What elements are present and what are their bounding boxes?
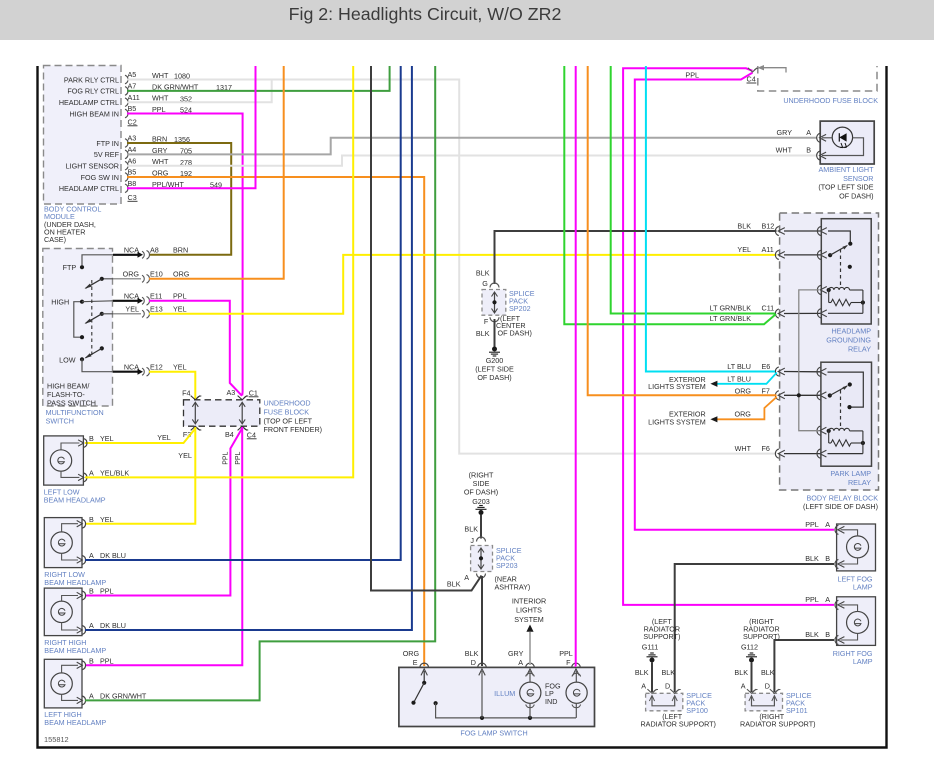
wire BLK (vertical to SP203 A) [371,66,482,591]
svg-text:RADIATOR SUPPORT): RADIATOR SUPPORT) [740,720,815,729]
block pin at 395.3 [775,391,778,400]
relay2 wire F7 [784,394,820,396]
switch pin F [572,663,581,667]
svg-text:BLK: BLK [805,554,819,563]
svg-text:LIGHT SENSOR: LIGHT SENSOR [66,162,119,171]
wire YEL (E13 to relay A11) [149,255,777,314]
switch internal wire E13 [102,313,113,315]
svg-text:G111: G111 [642,643,659,652]
wire BLK (F to G200) [494,319,496,347]
switch pin E10 [142,275,144,282]
wire DK BLU (right high A up) [85,66,412,630]
wire PPL (to switch F) [575,66,577,666]
svg-text:E12: E12 [150,363,163,372]
svg-text:ORG: ORG [735,410,752,419]
svg-text:E11: E11 [150,292,162,301]
svg-text:BEAM HEADLAMP: BEAM HEADLAMP [44,495,106,504]
right low beam headlamp box [44,518,82,568]
svg-text:A: A [806,128,811,137]
svg-text:A5: A5 [128,70,137,79]
C4 internal stub [759,68,786,73]
svg-text:A7: A7 [128,82,137,91]
svg-text:D: D [471,658,476,667]
fog switch contact 2 [434,701,438,705]
wire ORG stub (exterior lights) [713,397,777,420]
svg-text:DK BLU: DK BLU [100,551,126,560]
switch internal wire E10 [102,278,113,280]
svg-text:SWITCH: SWITCH [46,416,74,425]
svg-text:SYSTEM: SYSTEM [514,615,544,624]
left high beam headlamp bulb [51,673,72,694]
svg-text:E13: E13 [150,305,163,314]
ground G112 [750,652,754,654]
wire YEL (F3 to right low B) [85,427,195,524]
ambient light sensor circle [832,127,852,147]
svg-text:BLK: BLK [734,668,748,677]
svg-text:NCA: NCA [124,292,139,301]
relay1 wire A11 [784,254,820,256]
splice pack SP202 box [482,290,506,316]
wire DK GRN/WHT 1317 (A7) [127,66,390,91]
ground G203 [479,505,483,507]
svg-text:PPL: PPL [100,587,114,596]
svg-text:ILLUM: ILLUM [494,689,515,698]
svg-text:SP100: SP100 [686,706,708,715]
svg-text:LIGHTS SYSTEM: LIGHTS SYSTEM [648,382,706,391]
svg-text:PARK RLY CTRL: PARK RLY CTRL [64,75,119,84]
svg-text:B5: B5 [128,168,137,177]
block pin at 371.5 [775,367,778,376]
fog switch bus [436,703,576,718]
svg-text:OF DASH): OF DASH) [839,191,873,200]
fog switch contact [423,671,425,681]
relay1 pin 1 [817,226,820,235]
wire YEL/BLK (left low A up) [85,66,353,477]
wire BRN 1356 (A3 to A8) [127,143,231,255]
wire BLK (G112 to A) [751,663,753,693]
relay1 pin 3 [817,285,820,294]
left high beam headlamp box [44,659,82,708]
svg-text:BLK: BLK [635,668,649,677]
svg-text:FOG RLY CTRL: FOG RLY CTRL [67,87,119,96]
svg-text:A: A [89,551,94,560]
body relay block box [780,213,879,490]
svg-text:SP202: SP202 [509,304,531,313]
splice pack SP203 box [471,546,493,572]
wire WHT 352 (A11, joins WHT 1080) [127,80,272,103]
svg-text:CASE): CASE) [44,235,66,244]
exterior lights arrow 2 [710,416,717,422]
switch pin D [478,663,487,667]
switch stub E10 [113,278,141,280]
svg-text:A8: A8 [150,246,159,255]
svg-text:G: G [482,279,488,288]
relay2 actuator [840,390,842,428]
exterior lights arrow 1 [710,381,717,387]
switch pin A8 [142,251,144,258]
svg-text:WHT: WHT [735,444,752,453]
svg-text:F: F [566,658,571,667]
right low beam headlamp pin A [82,556,85,565]
svg-text:B: B [806,146,811,155]
left low beam headlamp internal wires [61,443,79,450]
svg-text:ORG: ORG [735,386,752,395]
svg-text:YEL: YEL [157,433,171,442]
pin C4 (top) [748,68,757,72]
svg-text:B12: B12 [762,221,775,230]
svg-text:B8: B8 [128,179,137,188]
svg-text:PPL: PPL [223,451,230,464]
svg-text:OF DASH): OF DASH) [498,329,532,338]
svg-text:G203: G203 [472,497,490,506]
body control module box [44,66,122,205]
svg-text:F6: F6 [762,444,770,453]
svg-text:C11: C11 [762,304,775,313]
LOW contact [80,357,84,361]
switch pin E13 [142,310,144,317]
svg-text:B4: B4 [225,430,234,439]
svg-text:A3: A3 [128,134,137,143]
svg-text:YEL: YEL [178,451,192,460]
svg-text:(TOP OF LEFT: (TOP OF LEFT [264,416,313,425]
svg-text:HIGH BEAM IN: HIGH BEAM IN [69,109,119,118]
svg-text:B: B [89,515,94,524]
svg-text:A4: A4 [128,145,137,154]
svg-text:RADIATOR SUPPORT): RADIATOR SUPPORT) [640,720,715,729]
svg-text:G112: G112 [741,643,758,652]
svg-text:F: F [484,317,489,326]
switch arm E12 [100,346,104,350]
SP202 bus [494,293,496,313]
svg-text:PPL: PPL [805,595,819,604]
relay2 wire E6 [784,371,820,373]
svg-text:BLK: BLK [761,668,775,677]
switch arm E10 [100,277,104,281]
left fog lamp box [837,524,876,571]
BCM pin B8 [125,184,128,193]
svg-text:(TOP LEFT SIDE: (TOP LEFT SIDE [818,183,873,192]
svg-text:D: D [765,682,770,691]
svg-text:E: E [413,658,418,667]
svg-text:SUPPORT): SUPPORT) [643,632,680,641]
svg-text:YEL/BLK: YEL/BLK [100,469,129,478]
relay1 wire C11 [784,312,820,314]
svg-text:YEL: YEL [100,515,114,524]
svg-text:A: A [825,520,830,529]
relay2 switch arm [828,393,832,397]
pin F4 [191,396,200,400]
svg-text:PPL: PPL [100,657,114,666]
fuse A3-B4 [241,403,243,424]
svg-text:BLK: BLK [447,580,461,589]
relay1 coil [827,288,831,292]
sensor pin A [817,133,820,142]
svg-text:F4: F4 [182,388,190,397]
multifunction switch box [43,249,113,407]
switch internal wire E11 [82,300,113,303]
BCM pin A4 [125,150,128,159]
svg-text:UNDERHOOD FUSE BLOCK: UNDERHOOD FUSE BLOCK [783,96,878,105]
svg-text:FRONT FENDER): FRONT FENDER) [264,425,323,434]
BCM pin A3 [125,139,128,148]
wire ORG 192 (B5 to fog switch E) [127,177,424,666]
right fog lamp internal wires [841,605,858,612]
svg-text:WHT: WHT [776,146,793,155]
SP203 bottom pin [477,574,486,579]
svg-text:DK GRN/WHT: DK GRN/WHT [100,692,147,701]
left low beam headlamp box [44,436,84,485]
interior lights arrow [526,625,533,632]
SP202 bottom pin [490,317,499,322]
wire LT GRN/BLK 2 (to C11) [564,66,776,324]
svg-text:B5: B5 [128,104,137,113]
SP203 top pin [477,537,486,542]
svg-text:LAMP: LAMP [853,657,873,666]
left high beam headlamp internal wires [62,665,78,673]
svg-text:NCA: NCA [124,246,139,255]
svg-text:B: B [825,630,830,639]
fog switch arm [415,683,425,701]
svg-text:C3: C3 [128,193,137,202]
svg-text:PASS SWITCH: PASS SWITCH [47,398,96,407]
left low beam headlamp bulb [50,450,71,471]
pin F3 [191,426,200,430]
svg-text:D: D [665,682,670,691]
relay2 switch wiring [828,372,864,407]
right fog lamp pin B [835,635,838,644]
svg-text:FOG LAMP SWITCH: FOG LAMP SWITCH [460,729,527,738]
left low beam headlamp pin A [84,473,87,482]
switch pin E11 [142,297,144,304]
svg-text:GROUNDING: GROUNDING [826,336,871,345]
svg-text:ORG: ORG [173,270,190,279]
svg-text:A: A [89,469,94,478]
wire PPL (C4 to left high B) [85,427,242,665]
right high beam headlamp internal wires [62,596,78,602]
BCM pin A7 [125,87,128,96]
svg-text:HEADLAMP CTRL: HEADLAMP CTRL [59,98,119,107]
right low beam headlamp internal wires [62,524,78,532]
block pin at 453.6 [775,449,778,458]
svg-text:OF DASH): OF DASH) [477,373,511,382]
svg-text:C1: C1 [249,388,258,397]
SP202 top pin [490,283,499,288]
svg-text:A11: A11 [762,245,774,254]
svg-text:LT BLU: LT BLU [727,362,751,371]
svg-text:A: A [89,621,94,630]
switch internal wire A8-FTP [82,255,113,265]
relay1 pin 2 [817,250,820,259]
splice pack SP101 box [745,693,782,711]
switch stub A8 [113,254,141,256]
svg-text:FTP IN: FTP IN [96,139,119,148]
svg-text:LT GRN/BLK: LT GRN/BLK [710,314,751,323]
svg-text:SUPPORT): SUPPORT) [743,632,780,641]
switch pin A [526,663,535,667]
svg-text:DK BLU: DK BLU [100,621,126,630]
svg-text:B: B [89,434,94,443]
wire ORG (E10 up) [149,66,284,279]
right high beam headlamp pin B [82,591,85,600]
svg-text:PPL: PPL [685,71,699,80]
HIGH bracket [74,302,82,338]
relay2 pin 2 [817,391,820,400]
svg-text:OF DASH): OF DASH) [464,488,498,497]
svg-text:BEAM HEADLAMP: BEAM HEADLAMP [44,646,106,655]
wire LT BLU stub (exterior lights) [717,373,777,384]
wire PPL/WHT 549 (B8 up) [127,66,256,188]
svg-text:C4: C4 [247,430,256,439]
wire PPL (E11 to fuse block C1) [149,301,242,396]
svg-text:LT BLU: LT BLU [727,374,751,383]
svg-text:BLK: BLK [476,329,490,338]
switch pin E12 [142,368,144,375]
svg-text:5V REF: 5V REF [94,150,120,159]
right high beam headlamp pin A [82,626,85,635]
svg-text:NCA: NCA [124,363,139,372]
svg-text:AMBIENT LIGHT: AMBIENT LIGHT [819,165,875,174]
svg-text:BLK: BLK [737,221,751,230]
splice pack SP101 pin D [770,689,779,693]
ambient light sensor box [820,121,874,164]
svg-text:RELAY: RELAY [848,345,871,354]
sensor pin B [817,151,820,160]
wire YEL (E12 to F4) [149,372,195,399]
svg-text:FUSE BLOCK: FUSE BLOCK [264,407,310,416]
svg-text:B: B [825,554,830,563]
wire WHT 1080 (A5 to F6) [127,80,775,454]
svg-text:YEL: YEL [125,305,139,314]
svg-text:GRY: GRY [508,649,524,658]
svg-text:E10: E10 [150,270,163,279]
pin A3/C1 [238,396,247,400]
wire WHT 278 (A6 to sensor B) [127,156,817,166]
svg-text:A: A [89,692,94,701]
relay1 NO contact [848,265,852,269]
wire DK GRN/WHT (left high A up) [85,66,435,700]
left low beam headlamp pin B [84,439,87,448]
relay2 pin 4 [817,449,820,458]
svg-text:A11: A11 [128,93,140,102]
svg-text:YEL: YEL [737,245,751,254]
svg-text:IND: IND [545,697,557,706]
ILLUM lamp [526,673,535,676]
underhood fuse block box [184,400,260,426]
svg-text:PARK LAMP: PARK LAMP [830,469,871,478]
svg-text:LAMP: LAMP [853,583,873,592]
wire GRY (interior lights) [529,632,531,665]
relay1 wire B12 [784,230,820,232]
underhood fuse block (top) box [758,66,877,91]
wire PPL (C4 to right fog A) [623,68,834,605]
wire BLK (left fog B to SP100) [675,564,834,692]
fog lamp switch box [399,667,595,726]
switch D internal [481,671,483,718]
svg-text:GRY: GRY [777,128,793,137]
switch actuator link [91,280,93,358]
svg-text:BEAM HEADLAMP: BEAM HEADLAMP [44,578,106,587]
svg-text:PPL: PPL [235,451,242,464]
wire PPL (C4 to left fog A) [635,73,834,530]
svg-text:LIGHTS: LIGHTS [516,606,542,615]
title band [0,0,934,40]
svg-text:HEADLAMP CTRL: HEADLAMP CTRL [59,184,119,193]
relay1 switch wiring [828,231,850,244]
svg-text:J: J [470,536,474,545]
wire BLK (B12 to SP202) [495,231,777,284]
headlamp grounding relay box [821,219,871,324]
svg-text:INTERIOR: INTERIOR [512,597,546,606]
BCM pin A5 [125,75,128,84]
svg-text:Fig 2: Headlights Circuit, W/O: Fig 2: Headlights Circuit, W/O ZR2 [289,4,562,24]
svg-text:ASHTRAY): ASHTRAY) [495,583,531,592]
svg-text:PPL: PPL [173,292,187,301]
photodiode [839,133,846,141]
left fog lamp bulb [847,536,869,558]
svg-text:RELAY: RELAY [848,478,871,487]
wire DK BLU (right low A up) [85,66,401,560]
svg-text:A: A [641,682,646,691]
switch internal wire LOW-E12 [82,359,113,371]
wire LT GRN/BLK 1 (to C11) [611,66,775,314]
right fog lamp box [837,597,876,646]
ground G111 [650,652,654,654]
splice pack SP101 pin A [747,689,756,693]
splice pack SP100 bus [652,696,675,706]
svg-text:ORG: ORG [123,270,140,279]
FOG LP IND lamp [572,673,581,676]
wire BLK (G203 to SP203) [480,515,482,539]
relay coil feed loop [799,290,819,431]
svg-text:A: A [825,595,830,604]
svg-text:ORG: ORG [403,649,420,658]
right low beam headlamp pin B [82,519,85,528]
svg-text:SP101: SP101 [786,706,808,715]
svg-text:(LEFT SIDE OF DASH): (LEFT SIDE OF DASH) [803,502,878,511]
wire BLK (right fog B to SP101) [774,640,834,692]
wire LT BLU (to E6) [646,66,775,372]
switch pin E [420,663,429,667]
svg-text:A6: A6 [128,156,137,165]
svg-text:LIGHTS SYSTEM: LIGHTS SYSTEM [648,418,706,427]
switch arm E13 [100,312,104,316]
left high beam headlamp pin A [82,696,85,705]
svg-text:C2: C2 [128,118,137,127]
svg-text:BLK: BLK [465,649,479,658]
splice pack SP101 bus [752,696,775,706]
svg-text:BLK: BLK [662,668,676,677]
svg-text:A: A [741,682,746,691]
left fog lamp pin A [835,525,838,534]
svg-text:HIGH: HIGH [51,298,69,307]
svg-text:FTP: FTP [63,263,77,272]
wire PPL (C4 to right high B) [85,429,242,596]
svg-text:B: B [89,657,94,666]
svg-text:YEL: YEL [100,434,114,443]
splice pack SP100 box [646,693,683,711]
wire BLK (SP203 A to switch D) [481,576,483,666]
svg-text:155812: 155812 [44,735,69,744]
relay1 pin 4 [817,309,820,318]
left fog lamp pin B [835,559,838,568]
switch stub E13 [113,313,141,315]
fuse F4-F3 [194,403,196,424]
park lamp relay box [821,362,872,466]
BCM pin A6 [125,161,128,170]
relay2 coil [827,429,831,433]
wire GRY 705 (A4 to sensor A) [127,138,817,155]
svg-text:UNDERHOOD: UNDERHOOD [264,399,311,408]
